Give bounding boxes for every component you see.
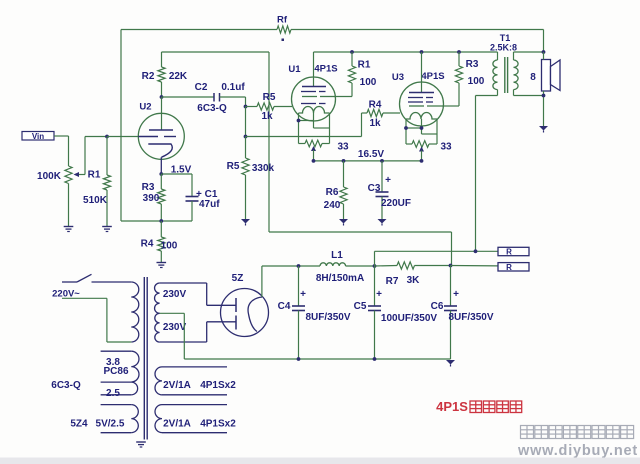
- svg-text:2.5K:8: 2.5K:8: [490, 43, 517, 53]
- port Vin: [22, 132, 54, 142]
- U3 grid rows: [408, 98, 433, 103]
- capacitor C5 100UF/350V: [354, 266, 438, 359]
- node - cathode bottom: [159, 219, 163, 223]
- potentiometer 100K: [37, 166, 85, 184]
- svg-text:U3: U3: [392, 72, 404, 83]
- svg-text:510K: 510K: [83, 195, 108, 206]
- svg-text:+: +: [453, 289, 459, 300]
- svg-text:2V/1A: 2V/1A: [163, 419, 191, 430]
- svg-text:+: +: [376, 289, 382, 300]
- wire - PSU ground rail: [184, 358, 450, 360]
- resistor R3 390: [142, 174, 165, 221]
- U1 plate lead: [313, 52, 315, 87]
- ground under 100K pot: [64, 227, 74, 232]
- ground under PT core: [136, 442, 146, 447]
- svg-text:5Z: 5Z: [232, 273, 244, 284]
- node - C3 top: [380, 159, 384, 163]
- U2 cathode: [148, 144, 172, 174]
- ground under R5 330k: [241, 219, 250, 226]
- svg-text:100: 100: [360, 77, 377, 88]
- svg-text:C6: C6: [431, 301, 444, 312]
- switch SW mains: [52, 274, 131, 299]
- svg-text:4P1Sx2: 4P1Sx2: [200, 380, 236, 391]
- svg-text:R7: R7: [386, 276, 399, 287]
- node - R7 out: [449, 264, 453, 268]
- svg-text:4P1S: 4P1S: [421, 71, 444, 82]
- svg-text:1k: 1k: [369, 118, 381, 129]
- wire - mains return: [62, 298, 131, 342]
- rheostat 33 U3: [406, 141, 452, 161]
- node - R3 top: [457, 50, 461, 54]
- watermark chinese: [521, 426, 634, 439]
- svg-text:100K: 100K: [37, 171, 62, 182]
- wire - HT top to rectifier: [207, 283, 236, 305]
- node - speaker bottom: [542, 94, 546, 98]
- PT heater winding 6C3: [51, 351, 139, 399]
- U1 filament: [299, 107, 330, 113]
- U2 grid: [138, 136, 176, 138]
- 5Z cathode: [248, 297, 262, 332]
- svg-text:220UF: 220UF: [381, 198, 411, 209]
- svg-text:100: 100: [161, 241, 178, 252]
- svg-text:6C3-Q: 6C3-Q: [197, 103, 227, 114]
- svg-text:R4: R4: [369, 100, 382, 111]
- wire - pot wiper up: [85, 137, 107, 175]
- resistor R1 100 screen: [335, 52, 376, 97]
- svg-text:R: R: [506, 263, 512, 272]
- wire - plate rail: [314, 51, 498, 53]
- capacitor C3 220UF: [368, 161, 411, 219]
- svg-text:2V/1A: 2V/1A: [163, 380, 191, 391]
- node - U3 filament mid: [420, 126, 424, 130]
- wire - speaker leads: [514, 52, 544, 126]
- wire - R7 to R port2: [451, 265, 499, 267]
- U1 screen row: [302, 96, 335, 98]
- node - U3 filament left: [404, 126, 408, 130]
- svg-text:R1: R1: [88, 170, 101, 181]
- wire - C2 to grid node: [220, 97, 246, 107]
- svg-text:R: R: [506, 248, 512, 257]
- svg-text:+: +: [385, 175, 391, 186]
- wire - grid node down: [245, 107, 247, 137]
- svg-text:8UF/350V: 8UF/350V: [448, 312, 493, 323]
- node - U1 filament: [297, 119, 301, 123]
- svg-text:5Z4: 5Z4: [70, 419, 88, 430]
- rheostat 33 U1: [299, 140, 349, 161]
- svg-text:5V/2.5: 5V/2.5: [96, 419, 125, 430]
- svg-text:240: 240: [324, 200, 341, 211]
- transformer PT core: [144, 277, 147, 440]
- tube U3 4P1S envelope: [392, 71, 445, 126]
- svg-text:390: 390: [143, 193, 160, 204]
- ground under R4 100: [157, 263, 167, 268]
- node - U1 wiper: [312, 159, 316, 163]
- resistor R2 22K: [142, 52, 188, 97]
- tube U2 6C3 envelope: [138, 102, 184, 160]
- svg-text:4P1Sx2: 4P1Sx2: [200, 419, 236, 430]
- svg-text:www.diybuy.net: www.diybuy.net: [517, 443, 638, 459]
- transformer T1 secondary: [514, 52, 544, 96]
- wire - feedback top rail: [121, 30, 544, 53]
- ground under R1: [102, 227, 112, 232]
- wire - HT center tap: [160, 313, 185, 359]
- capacitor C1 47uf: [186, 189, 221, 221]
- svg-text:4P1S: 4P1S: [436, 399, 468, 414]
- wire - feedback left rail: [120, 30, 122, 222]
- svg-text:33: 33: [440, 142, 452, 153]
- port R 2: [498, 263, 529, 272]
- node - U3 wiper: [420, 159, 424, 163]
- svg-text:R1: R1: [358, 60, 371, 71]
- svg-text:U2: U2: [139, 102, 151, 113]
- svg-text:8H/150mA: 8H/150mA: [316, 273, 364, 284]
- bottom strip: [0, 458, 640, 464]
- wire - grid to U2: [107, 136, 138, 138]
- svg-text:33: 33: [337, 142, 349, 153]
- wire - 5Z cathode to B+: [261, 266, 263, 297]
- PT primary winding: [131, 282, 139, 342]
- tube U1 4P1S envelope: [288, 63, 337, 121]
- wire - Vin to pot: [54, 136, 69, 166]
- svg-text:R4: R4: [141, 239, 154, 250]
- inductor L1 choke: [316, 250, 364, 284]
- PT filament winding 2V1A lower: [155, 405, 236, 433]
- svg-text:R6: R6: [326, 187, 339, 198]
- ground under C6: [446, 360, 455, 367]
- PT HT winding 230V lower: [155, 313, 207, 342]
- svg-text:230V: 230V: [163, 289, 187, 300]
- node - R4 branch: [244, 135, 248, 139]
- U1 plate: [302, 86, 326, 88]
- wire - primary bottom to B+: [476, 96, 498, 252]
- svg-text:8: 8: [530, 72, 536, 83]
- svg-text:C3: C3: [368, 183, 381, 194]
- node - U2 cathode 1.5V: [159, 165, 191, 176]
- U3 filament legs: [406, 119, 437, 144]
- U3 screen row: [409, 105, 443, 107]
- svg-text:R5: R5: [227, 161, 240, 172]
- wire - cathode to C1: [161, 174, 192, 196]
- U3 filament: [406, 113, 437, 119]
- resistor R5 330k: [227, 137, 275, 220]
- node - C5 bottom: [373, 357, 377, 361]
- svg-text:R2: R2: [142, 71, 155, 82]
- resistor R3 100 screen: [443, 52, 484, 106]
- resistor R5 1k: [246, 92, 293, 122]
- PT HT winding 230V upper: [155, 283, 207, 313]
- svg-text:230V: 230V: [163, 322, 187, 333]
- svg-text:U1: U1: [288, 64, 301, 75]
- U3 plate lead: [421, 52, 423, 93]
- wire - B+ rail: [262, 265, 375, 267]
- resistor R4 1k: [362, 100, 401, 130]
- svg-text:4P1S: 4P1S: [314, 63, 337, 74]
- U3 plate: [409, 92, 434, 94]
- svg-text:0.1uf: 0.1uf: [221, 82, 245, 93]
- svg-text:16.5V: 16.5V: [358, 149, 384, 160]
- wire - HT bottom to rectifier: [207, 322, 236, 342]
- 5Z anode 1: [235, 298, 237, 312]
- node - C4 top: [297, 264, 301, 268]
- node - C5 top: [373, 264, 377, 268]
- svg-text:R5: R5: [263, 92, 276, 103]
- wire - R2 top to B+ riser: [162, 52, 452, 266]
- ground under C3: [378, 219, 387, 226]
- node - U1 grid network: [244, 105, 248, 109]
- label 4P1S parallel single-ended (red): [436, 399, 522, 414]
- svg-text:L1: L1: [331, 250, 343, 261]
- capacitor C2 0.1uf: [195, 82, 246, 114]
- svg-text:8UF/350V: 8UF/350V: [305, 312, 350, 323]
- 5Z anode 2: [235, 316, 237, 330]
- ground under speaker: [539, 126, 548, 133]
- wire - plate node to C2: [162, 96, 214, 98]
- Rf footnote mark: [282, 39, 285, 42]
- resistor R1 510K: [83, 137, 111, 227]
- svg-text:C4: C4: [278, 301, 291, 312]
- PT filament winding 2V1A upper: [155, 367, 236, 395]
- svg-text:100UF/350V: 100UF/350V: [381, 313, 437, 324]
- transformer T1 primary: [490, 33, 517, 96]
- U2 plate: [149, 97, 173, 130]
- svg-text:47uf: 47uf: [199, 199, 220, 210]
- svg-text:2.5: 2.5: [106, 388, 120, 399]
- svg-text:6C3-Q: 6C3-Q: [51, 380, 81, 391]
- svg-text:R3: R3: [142, 182, 155, 193]
- capacitor C6 8UF/350V: [431, 266, 494, 360]
- speaker: [530, 60, 560, 92]
- svg-text:+: +: [300, 289, 306, 300]
- node - speaker top: [542, 50, 546, 54]
- node - R6 top: [342, 159, 346, 163]
- svg-text:T1: T1: [500, 33, 511, 43]
- node - C4 bottom: [297, 357, 301, 361]
- resistor R7 3K: [375, 262, 451, 287]
- wire - cathode bottom loop: [121, 220, 192, 222]
- capacitor C4 8UF/350V: [278, 266, 351, 359]
- U1 filament legs: [299, 113, 330, 144]
- resistor Rf: [277, 15, 291, 34]
- ground under R6: [339, 219, 348, 226]
- resistor R4 100: [141, 221, 178, 262]
- tube 5Z rectifier envelope: [221, 273, 269, 337]
- svg-text:PC86: PC86: [103, 366, 128, 377]
- watermark url: [517, 443, 638, 459]
- svg-text:100: 100: [468, 76, 485, 87]
- node - U2 plate junction: [160, 95, 164, 99]
- svg-text:Rf: Rf: [277, 15, 288, 26]
- svg-text:1k: 1k: [261, 111, 273, 122]
- node - grid junction: [105, 135, 109, 139]
- svg-text:22K: 22K: [169, 71, 188, 82]
- transformer T1 core: [505, 57, 508, 93]
- wire - B+ to R port1: [375, 251, 499, 266]
- node - U3 plate top: [420, 50, 424, 54]
- port R 1: [498, 247, 529, 256]
- node - R1 top: [350, 50, 354, 54]
- svg-text:330k: 330k: [252, 163, 275, 174]
- U1 grid rows: [301, 92, 326, 104]
- node - OPT feed: [474, 249, 478, 253]
- PT heater winding 5Z4: [70, 405, 138, 433]
- svg-text:C2: C2: [195, 82, 208, 93]
- svg-text:3K: 3K: [407, 275, 421, 286]
- resistor R6 240: [324, 161, 347, 219]
- wire - pot to ground: [68, 184, 70, 227]
- wire - to R4: [246, 113, 362, 137]
- svg-text:C5: C5: [354, 301, 367, 312]
- svg-text:R3: R3: [466, 59, 479, 70]
- wire - 16.5V cathode rail: [314, 149, 422, 161]
